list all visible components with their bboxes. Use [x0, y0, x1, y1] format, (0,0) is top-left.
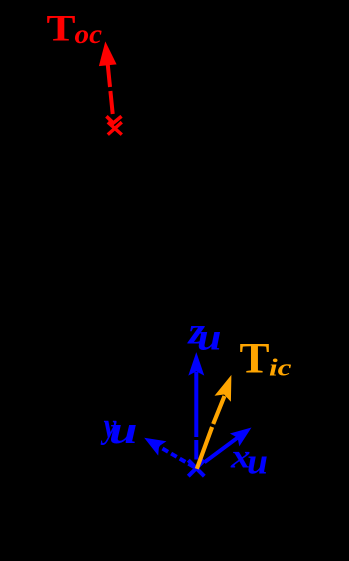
axis x_u arrowhead	[230, 428, 252, 447]
svg-text:u: u	[197, 317, 222, 359]
svg-text:u: u	[247, 442, 268, 483]
axis z_u shaft	[194, 372, 198, 460]
red V arrowhead (bottom)	[106, 116, 121, 123]
label T_ic	[240, 335, 292, 383]
red dashed arrow shaft	[108, 64, 113, 114]
svg-text:T: T	[47, 9, 76, 50]
svg-text:ic: ic	[269, 356, 292, 382]
label x_u	[230, 439, 268, 483]
label z_u	[186, 310, 221, 358]
orange arrowhead	[215, 375, 232, 402]
axis x_u shaft	[204, 438, 237, 463]
red X mark	[108, 122, 122, 134]
axis z_u arrowhead	[188, 352, 204, 376]
label y_u	[100, 406, 137, 452]
svg-text:T: T	[240, 335, 270, 383]
svg-text:u: u	[109, 409, 138, 452]
origin X mark	[188, 460, 204, 476]
axis y_u dashed shaft	[159, 447, 194, 467]
red arrowhead (top)	[99, 41, 117, 66]
svg-text:oc: oc	[75, 19, 103, 49]
orange dashed arrow T_ic shaft	[197, 396, 225, 469]
axis y_u arrowhead	[144, 438, 166, 456]
label T_oc	[47, 9, 103, 50]
